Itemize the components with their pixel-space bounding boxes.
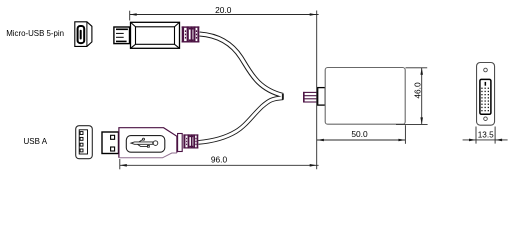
svg-text:50.0: 50.0 — [351, 129, 368, 139]
DVI shroud — [480, 79, 491, 114]
USB-A logo plate — [126, 136, 165, 153]
USB trident logo — [131, 138, 158, 147]
dimension 20.0 — [130, 11, 319, 170]
svg-text:96.0: 96.0 — [211, 154, 228, 164]
DVI screw hole bottom — [484, 117, 488, 121]
USB-A collar — [178, 134, 183, 152]
micro-USB front icon — [75, 22, 92, 47]
cable stem at box — [303, 92, 317, 103]
bottom cable interior — [198, 98, 283, 143]
top cable — [200, 34, 284, 95]
bottom cable — [198, 98, 283, 143]
micro-USB crimp — [182, 26, 200, 42]
dimension 46.0 — [396, 68, 428, 125]
DVI blade — [485, 82, 487, 86]
svg-text:USB A: USB A — [24, 137, 48, 146]
svg-text:20.0: 20.0 — [215, 5, 232, 15]
USB-A front icon — [76, 126, 93, 159]
micro-USB plug side view: body — [131, 22, 180, 48]
svg-text:Micro-USB 5-pin: Micro-USB 5-pin — [6, 29, 64, 38]
micro-USB plug side view: tip — [114, 27, 130, 44]
top cable interior — [200, 34, 284, 95]
dimension 96.0 — [120, 159, 319, 169]
DVI screw hole top — [484, 68, 488, 72]
dimension 13.5 — [463, 127, 508, 144]
USB-A crimp — [183, 134, 198, 148]
DVI connector outer — [477, 63, 495, 126]
dimension 50.0 — [317, 125, 406, 144]
boss on box — [318, 88, 326, 106]
svg-text:13.5: 13.5 — [478, 130, 494, 139]
svg-text:46.0: 46.0 — [413, 82, 423, 99]
USB-A plug side view: tip — [102, 132, 119, 154]
USB-A plug side view: body — [119, 128, 177, 158]
cable tip cap — [282, 94, 284, 100]
DVI pins grid — [481, 88, 489, 112]
adapter box — [325, 68, 405, 125]
